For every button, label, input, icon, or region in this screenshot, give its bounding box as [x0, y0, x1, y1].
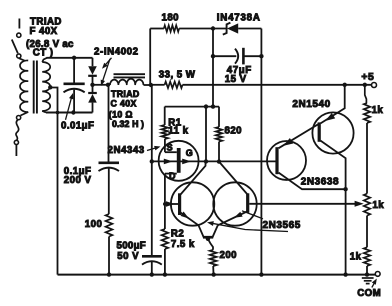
svg-text:11 k: 11 k	[168, 126, 188, 137]
switch blade	[12, 40, 18, 54]
svg-text:2N1540: 2N1540	[292, 99, 330, 110]
transformer core	[33, 61, 35, 114]
svg-text:(10 Ω: (10 Ω	[109, 110, 133, 120]
node 2N1540 emitter junction	[343, 83, 347, 87]
wire secondary bottom rail	[46, 112, 93, 114]
ground	[362, 277, 374, 279]
svg-text:200: 200	[220, 250, 238, 261]
terminal +5	[372, 83, 377, 88]
capacitor 500uF	[142, 255, 162, 258]
input terminal C	[17, 116, 21, 120]
wire bottom rail	[58, 274, 376, 276]
svg-text:D: D	[169, 171, 176, 181]
node base branch	[163, 202, 167, 206]
capacitor 47uF	[213, 55, 236, 57]
resistor 100	[106, 214, 113, 237]
leader arrow 2N4343	[147, 147, 158, 150]
wire R1 top lead	[164, 107, 166, 125]
arrow 2N3638 emitter	[283, 138, 293, 146]
resistor 820	[216, 127, 222, 142]
inductor TRIAD C40X	[114, 73, 146, 75]
svg-text:IN4738A: IN4738A	[217, 12, 261, 23]
wire diode column top	[92, 58, 94, 66]
wire left base	[165, 203, 178, 205]
svg-text:CT ): CT )	[33, 47, 54, 58]
diode D2 1N4002	[88, 92, 97, 94]
wire main rail left	[151, 84, 165, 86]
node 47uF left	[211, 54, 215, 58]
arrow 2N1540 emitter	[325, 113, 335, 121]
svg-text:2N3638: 2N3638	[301, 177, 339, 188]
svg-text:50 V: 50 V	[117, 251, 139, 262]
transistor Q1 2N4343 JFET	[159, 141, 199, 181]
node center tap	[48, 85, 52, 89]
svg-text:1k: 1k	[350, 251, 362, 262]
wire R2 bottom	[164, 249, 166, 275]
svg-text:15 V: 15 V	[225, 74, 247, 85]
leader arrow to D1	[104, 58, 112, 67]
svg-text:S: S	[167, 142, 173, 152]
svg-text:C 40X: C 40X	[111, 99, 137, 109]
node 47uF right	[259, 54, 263, 58]
resistor 1k middle	[364, 194, 370, 216]
arrow right emitter	[234, 212, 243, 218]
wire zener ref down	[212, 29, 214, 107]
zener diode 1N4738A	[223, 23, 231, 35]
svg-text:0.32 H ): 0.32 H )	[112, 119, 144, 129]
wire 1k chain	[365, 85, 367, 103]
terminal stub bottom-left	[15, 145, 17, 156]
svg-text:1k: 1k	[372, 105, 384, 116]
junction CT at secondary bottom rail	[56, 111, 60, 115]
resistor R2 7.5k	[162, 229, 169, 249]
node rail R2	[163, 272, 167, 276]
svg-text:+5: +5	[361, 72, 374, 83]
wire right base long	[249, 203, 356, 205]
node R1 rail to gate	[204, 104, 208, 108]
wire gate line	[152, 160, 277, 162]
leader arrow to D2	[102, 59, 110, 84]
node 0.01uF bottom	[71, 110, 75, 114]
node JFET gate exit	[204, 159, 208, 163]
diode D1 1N4002	[88, 66, 97, 75]
svg-text:2N3565: 2N3565	[263, 220, 301, 231]
transformer T1 primary winding	[19, 58, 26, 61]
capacitor 0.01uF	[73, 58, 75, 83]
arrow left emitter	[181, 212, 190, 219]
node rail 500uF	[150, 272, 154, 276]
wire zener right down	[260, 29, 262, 275]
svg-text:0.01μF: 0.01μF	[61, 121, 94, 132]
svg-text:820: 820	[225, 125, 243, 136]
node choke output	[149, 83, 153, 87]
wire top rail left	[150, 28, 164, 30]
node R1 rail zener ref	[211, 104, 215, 108]
node gate line left	[150, 159, 154, 163]
wire 820 bottom lead	[218, 142, 220, 162]
wire 100 to rail	[108, 237, 110, 275]
node zener ref top	[211, 26, 215, 30]
resistor 1k top	[364, 103, 370, 123]
svg-text:1k: 1k	[372, 200, 384, 211]
svg-text:COM: COM	[357, 288, 381, 299]
wire common emitter down	[208, 239, 213, 250]
terminal stub top-left	[18, 19, 20, 29]
transformer T1 secondary winding	[42, 58, 47, 62]
capacitor 0.1uF	[99, 162, 120, 165]
wire rectifier node to choke	[93, 84, 109, 86]
transistor Q5 2N1540	[312, 112, 353, 153]
resistor 1k bottom	[364, 247, 370, 266]
switch terminal B	[17, 54, 21, 58]
wire main rail right	[183, 84, 372, 86]
leader arrow 0.01uF	[66, 97, 72, 120]
cord squiggle	[16, 120, 19, 140]
wire gate node drop	[205, 107, 207, 162]
svg-text:200 V: 200 V	[64, 175, 92, 186]
node 820 gate junction	[217, 159, 221, 163]
wire R2 top	[164, 204, 166, 229]
node rail 200	[212, 272, 216, 276]
svg-text:2-IN4002: 2-IN4002	[94, 47, 139, 58]
node rail 1k	[365, 272, 369, 276]
node rail 100	[107, 272, 111, 276]
wire 1k2 to 1k3	[366, 216, 368, 248]
transistor Q2 2N3565 left	[171, 182, 214, 225]
wire 1k1 to 1k2	[366, 123, 368, 194]
node rail collector	[343, 272, 347, 276]
wire 200 to rail	[212, 266, 214, 275]
leader arrow COM	[372, 281, 376, 288]
svg-text:2N4343: 2N4343	[108, 145, 145, 156]
wire center tap to common	[50, 88, 57, 275]
arrow JFET channel right	[182, 159, 191, 165]
node common emitter	[206, 237, 210, 241]
node collectors join	[343, 187, 347, 191]
svg-text:180: 180	[162, 12, 180, 23]
wire top rail mid	[179, 28, 226, 30]
resistor 180	[164, 25, 179, 31]
arrow left base	[166, 201, 175, 206]
transistor Q3 2N3565 right	[213, 182, 256, 225]
wire R1 to JFET source	[164, 139, 166, 152]
leader 2N3565 short	[242, 211, 263, 219]
wire secondary top rail	[47, 57, 93, 59]
leader arrow 2N3565 long	[210, 223, 289, 232]
wire rail to 500uF	[151, 85, 153, 256]
wire to 0.1uF	[108, 85, 110, 162]
wire 1k3 to rail	[366, 266, 368, 275]
arrow JFET gate	[164, 159, 173, 165]
wire choke output up to 180 rail	[149, 29, 151, 86]
switch terminal A	[17, 33, 21, 37]
svg-text:100: 100	[85, 219, 103, 230]
resistor 33 5W	[165, 82, 183, 88]
resistor 200	[210, 250, 217, 266]
arrow right base at 1k	[355, 201, 364, 207]
svg-text:G: G	[186, 148, 193, 158]
node choke input	[106, 83, 110, 87]
svg-text:7.5 k: 7.5 k	[171, 239, 195, 250]
transistor Q4 2N3638	[267, 141, 306, 180]
node rectifier output	[90, 83, 94, 87]
node rail zener	[259, 272, 263, 276]
resistor R1 11k	[162, 125, 168, 139]
svg-text:F 40X: F 40X	[30, 26, 58, 37]
node 0.01uF top	[72, 56, 76, 60]
input terminal D	[14, 140, 18, 144]
svg-text:33, 5 W: 33, 5 W	[159, 69, 196, 80]
wire R1 rail	[165, 106, 219, 108]
node 1k chain top	[363, 83, 367, 87]
terminal COM	[375, 272, 380, 277]
svg-text:TRIAD: TRIAD	[111, 89, 140, 99]
wire emitter joiner	[199, 225, 218, 237]
wire 820 top lead	[218, 107, 220, 127]
